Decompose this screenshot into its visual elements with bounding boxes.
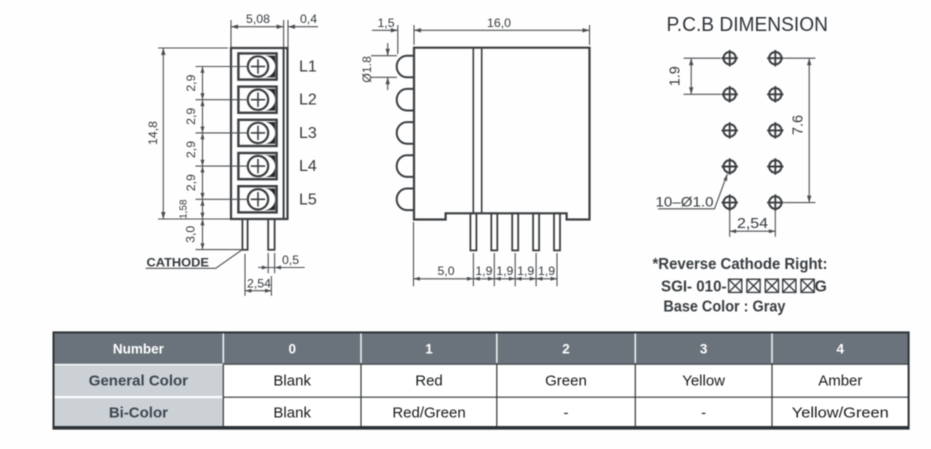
arrows 14.8 — [161, 48, 165, 55]
svg-text:P.C.B DIMENSION: P.C.B DIMENSION — [667, 13, 829, 36]
svg-text:Base Color : Gray: Base Color : Gray — [663, 299, 785, 316]
front panel split lines — [472, 48, 474, 214]
0.4 dimension line — [288, 26, 318, 28]
pad hole A1 — [722, 50, 738, 66]
PCB dimension arrows — [689, 58, 811, 233]
svg-text:4: 4 — [837, 342, 845, 357]
0.5 dimension line — [258, 267, 305, 269]
5.0 extension line at body left — [413, 222, 415, 286]
pad hole B1 — [767, 50, 783, 66]
PCB dimension lines — [658, 58, 816, 237]
arrow 3.0 bottom — [201, 243, 205, 249]
arrows 1.9 pcb — [689, 58, 693, 65]
chained 2.9 dimension line — [202, 67, 204, 220]
arrows chained 2.9 — [201, 67, 205, 73]
lead pin 1 (side view) — [470, 213, 476, 250]
lead pin 5 (side view) — [554, 213, 560, 250]
0.5 pin width extension lines — [267, 253, 269, 273]
lead pin 3 (side view) — [512, 213, 518, 250]
1.5 extension line at bump tip — [397, 25, 399, 54]
front view dimension texts — [146, 12, 317, 291]
LED cell L1 — [238, 53, 276, 79]
svg-text:3,0: 3,0 — [183, 226, 197, 243]
3.0 dimension line — [202, 219, 204, 250]
LED cell L4 — [238, 153, 276, 179]
part number check boxes — [729, 279, 815, 292]
svg-text:1,58: 1,58 — [179, 199, 190, 219]
arrows dia 1.8 — [386, 49, 390, 56]
LED cell L5 — [238, 186, 276, 212]
LED lens bump 3 (side) — [397, 122, 415, 144]
svg-text:1,5: 1,5 — [377, 16, 394, 30]
5.08 extension lines above body — [230, 20, 232, 47]
dia 1.8 tick bottom — [371, 76, 397, 78]
svg-text:*Reverse Cathode Right:: *Reverse Cathode Right: — [653, 256, 828, 273]
front view dimensions — [146, 20, 318, 296]
label cell General Color background — [54, 365, 224, 396]
svg-text:Red: Red — [415, 373, 443, 390]
tick at pin bottom for 3.0 — [196, 249, 243, 251]
CATHODE leader line — [146, 250, 242, 268]
14.8 extension top — [158, 47, 228, 49]
table grid dark lines — [223, 364, 908, 427]
svg-text:10–Ø1.0: 10–Ø1.0 — [656, 194, 714, 210]
side view dimension arrows — [386, 28, 590, 281]
svg-text:CATHODE: CATHODE — [147, 256, 210, 270]
1.5 dimension line — [372, 29, 398, 31]
14.8 extension bottom — [158, 218, 228, 220]
svg-text:Ø1.8: Ø1.8 — [360, 56, 374, 83]
dia 1.8 tick top — [371, 55, 397, 57]
2.54 extension line left pin — [244, 254, 246, 296]
svg-text:G: G — [815, 279, 827, 296]
pad hole A2 — [722, 86, 738, 102]
labels L1-L5 — [299, 59, 317, 209]
checkbox 3 — [765, 279, 778, 292]
LED cell L2 — [238, 87, 276, 113]
arrows 16.0 — [414, 28, 421, 32]
svg-text:Blank: Blank — [273, 405, 311, 422]
pad hole B2 — [767, 86, 783, 102]
svg-text:Yellow: Yellow — [682, 373, 725, 390]
14.8 dimension line — [162, 48, 164, 219]
pad hole B4 — [767, 158, 783, 174]
LED cell L3 — [238, 120, 276, 146]
table header row background — [54, 332, 909, 363]
header texts — [113, 342, 845, 357]
16.0 dimension line — [414, 29, 590, 31]
svg-text:2,54: 2,54 — [247, 277, 271, 291]
bottom pitch dimension line — [414, 278, 558, 280]
LED cells L1-L5 (front view) — [238, 53, 276, 212]
tick at body bottom for 1.58 — [196, 218, 232, 220]
LED array body (side view) with stepped bottom — [414, 48, 590, 220]
pad hole A4 — [722, 158, 738, 174]
lead pin 4 (side view) — [533, 213, 539, 250]
1.9 dimension line — [690, 58, 692, 94]
svg-text:Yellow/Green: Yellow/Green — [792, 405, 889, 422]
16.0 extension line left — [413, 25, 415, 45]
svg-text:L4: L4 — [299, 158, 317, 175]
pin center extension lines — [472, 253, 474, 286]
svg-text:2,54: 2,54 — [737, 216, 768, 232]
svg-text:Blank: Blank — [273, 373, 311, 390]
dia 1.8 arrow line — [387, 43, 389, 56]
row label texts — [89, 373, 188, 422]
lead pin 2 (side view) — [491, 213, 497, 250]
5.08 dimension line — [231, 26, 284, 28]
cathode lead pin left (front view) — [242, 219, 247, 250]
PCB pads (circle with cross) — [722, 50, 784, 211]
checkbox 1 — [729, 279, 742, 292]
arrows 0.5 — [262, 266, 268, 270]
svg-text:3: 3 — [700, 342, 708, 357]
LED array body (front view) — [231, 48, 288, 219]
PCB dimension texts — [656, 66, 807, 232]
7.6 dimension line — [808, 58, 810, 202]
svg-text:1,9: 1,9 — [517, 264, 534, 278]
svg-text:Bi-Color: Bi-Color — [109, 405, 168, 422]
svg-text:General Color: General Color — [89, 373, 188, 390]
svg-text:L5: L5 — [299, 191, 317, 208]
svg-text:1,9: 1,9 — [475, 264, 492, 278]
16.0 extension line right — [589, 25, 591, 45]
LED lens bump 1 (side) — [397, 56, 415, 78]
pad hole B5 — [767, 194, 783, 210]
svg-text:5,08: 5,08 — [246, 12, 270, 26]
2.54 dimension line — [245, 290, 271, 292]
svg-text:7.6: 7.6 — [791, 115, 807, 135]
leader lines from LED centers — [196, 66, 248, 68]
arrows 2.54 pcb — [730, 229, 736, 233]
svg-text:0,5: 0,5 — [282, 253, 299, 267]
1.9 extension lines — [684, 57, 721, 59]
svg-text:1: 1 — [425, 342, 433, 357]
2.54 dimension line — [730, 230, 776, 232]
svg-text:-: - — [701, 405, 706, 422]
LED lens bump 4 (side) — [397, 155, 415, 177]
notes text block — [653, 256, 828, 316]
svg-text:Green: Green — [545, 373, 587, 390]
svg-text:-: - — [564, 405, 569, 422]
header white separators — [223, 333, 772, 362]
table outer border — [54, 332, 909, 427]
svg-text:Amber: Amber — [818, 373, 862, 390]
svg-text:2,9: 2,9 — [184, 74, 198, 91]
side view dimension texts — [360, 16, 555, 278]
arrows 5.08 — [231, 25, 238, 29]
arrows 2.54 — [245, 289, 251, 293]
svg-text:5,0: 5,0 — [437, 264, 454, 278]
label cell Bi-Color background — [54, 398, 224, 426]
2.54 extension line right pin — [270, 276, 272, 296]
pad hole A3 — [722, 122, 738, 138]
value texts row General Color — [273, 373, 862, 390]
svg-text:2,9: 2,9 — [184, 108, 198, 125]
checkbox 2 — [747, 279, 760, 292]
pad hole A5 — [722, 194, 738, 210]
anode lead pin right (front view) — [268, 219, 274, 250]
checkbox 4 — [783, 279, 796, 292]
svg-text:Red/Green: Red/Green — [392, 405, 465, 422]
side view dimensions — [371, 25, 590, 286]
svg-text:L3: L3 — [299, 125, 317, 142]
svg-text:L1: L1 — [299, 59, 317, 76]
svg-text:0: 0 — [288, 342, 296, 357]
svg-text:1,9: 1,9 — [538, 264, 555, 278]
front view dimension arrows — [161, 25, 295, 293]
svg-text:14,8: 14,8 — [146, 121, 160, 145]
svg-text:1,9: 1,9 — [496, 264, 513, 278]
value cells background — [223, 364, 908, 427]
7.6 extension lines — [784, 57, 816, 59]
body inner right wall line (0.4 wall) — [283, 48, 285, 219]
checkbox 5 — [801, 279, 814, 292]
arrows 5.0 — [414, 277, 420, 281]
LED lens bump 2 (side) — [397, 89, 415, 111]
LED lens bump 5 (side) — [397, 189, 415, 211]
arrow 0.4 — [288, 25, 295, 29]
10-dia1.0 leader line — [658, 174, 727, 209]
svg-text:2: 2 — [562, 342, 570, 357]
svg-text:16,0: 16,0 — [487, 16, 511, 30]
pad hole B3 — [767, 122, 783, 138]
value texts row Bi-Color — [273, 405, 888, 422]
svg-text:2,9: 2,9 — [184, 174, 198, 191]
svg-text:L2: L2 — [299, 92, 317, 109]
arrows 7.6 — [807, 58, 811, 65]
svg-text:Number: Number — [113, 342, 165, 357]
arrow 10-dia1.0 leader — [724, 174, 728, 181]
table bottom thick border — [53, 427, 910, 429]
arrow 1.5 — [391, 28, 398, 32]
svg-text:1.9: 1.9 — [668, 66, 684, 86]
svg-text:SGI- 010-: SGI- 010- — [661, 279, 727, 296]
2.54 extension lines — [729, 210, 731, 237]
svg-text:2,9: 2,9 — [184, 141, 198, 158]
svg-text:0,4: 0,4 — [300, 12, 317, 26]
